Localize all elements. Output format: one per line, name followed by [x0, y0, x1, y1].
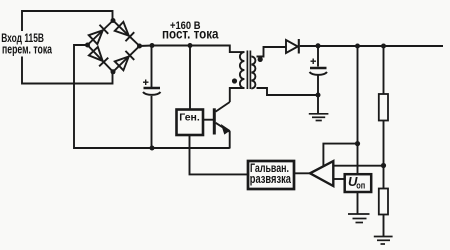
svg-text:перем. тока: перем. тока: [2, 42, 53, 57]
svg-text:оп: оп: [356, 181, 365, 191]
svg-text:развязка: развязка: [250, 172, 292, 186]
svg-text:пост. тока: пост. тока: [162, 27, 219, 42]
svg-text:Ген.: Ген.: [179, 112, 200, 124]
